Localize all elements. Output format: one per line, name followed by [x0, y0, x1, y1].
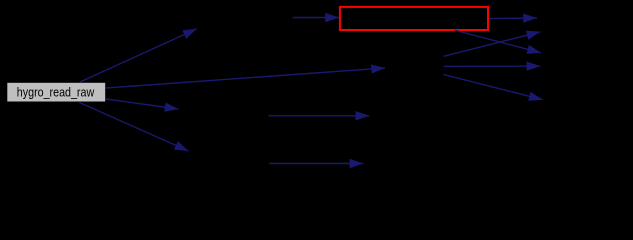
- edge C->H2: [444, 32, 541, 57]
- edge C->H5: [444, 75, 543, 100]
- node hygro_read_raw (main, grey): [7, 82, 106, 102]
- node B (red, truncated): [340, 7, 488, 30]
- edge E->G: [269, 163, 363, 165]
- edge main->D: [106, 99, 179, 109]
- edge main->A: [80, 29, 197, 82]
- edge C->H4: [444, 65, 541, 67]
- svg-text:hygro_read_raw: hygro_read_raw: [17, 85, 95, 99]
- edge A->B: [293, 17, 339, 19]
- edge B->H1: [489, 17, 537, 20]
- edge D->F: [268, 115, 369, 117]
- edge B->H3: [455, 30, 541, 53]
- edge main->C: [106, 68, 385, 88]
- edge main->E: [80, 103, 189, 152]
